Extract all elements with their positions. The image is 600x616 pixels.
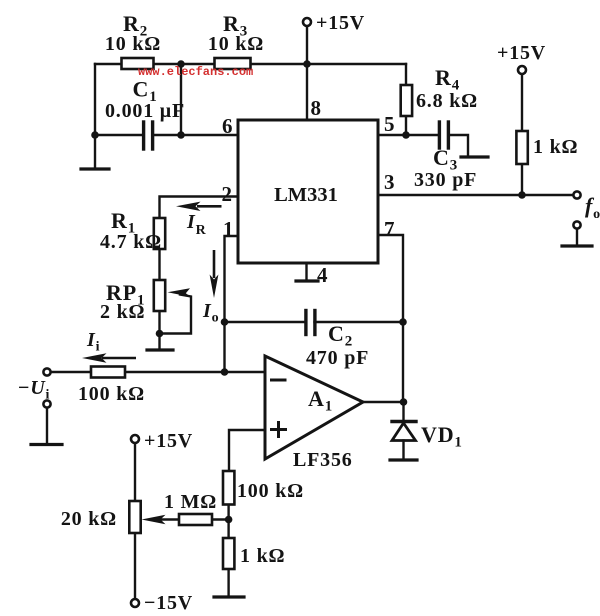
junction node pin8/+15V [303, 60, 311, 68]
diode VD1 triangle [392, 423, 416, 441]
svg-text:4.7 kΩ: 4.7 kΩ [100, 231, 162, 253]
terminal +15V top [303, 18, 311, 26]
resistor 1 kOhm right [516, 131, 527, 164]
resistor R3 [215, 58, 251, 69]
resistor R4 [401, 85, 412, 116]
svg-text:1 kΩ: 1 kΩ [240, 545, 285, 567]
wire R1 to RP1 [158, 249, 160, 280]
wire 1M left to pot arrow [156, 518, 179, 520]
wire top rail y=64 from left vertical to R4 corner [95, 63, 406, 65]
svg-text:−Ui: −Ui [18, 377, 50, 403]
svg-text:2 kΩ: 2 kΩ [100, 301, 145, 323]
wire op-amp plus input [229, 430, 265, 471]
svg-text:10 kΩ: 10 kΩ [208, 33, 264, 55]
svg-text:8: 8 [311, 96, 322, 120]
svg-text:100 kΩ: 100 kΩ [78, 383, 145, 405]
IC LM331 box [238, 120, 378, 263]
junction node pin3/1k [518, 191, 526, 199]
wire C2 row right segment [315, 321, 404, 323]
arrow Io [213, 250, 216, 278]
svg-text:0.001 μF: 0.001 μF [105, 100, 185, 122]
ground RP1 [147, 348, 173, 351]
ground fo [562, 244, 592, 247]
ground bottom divider [214, 595, 244, 598]
wire 100k-b to 1k-b [227, 505, 229, 539]
capacitor C3 plates [438, 122, 441, 148]
svg-text:+15V: +15V [497, 42, 546, 64]
resistor 1 kOhm divider [223, 538, 234, 569]
wire RP1 bottom to ground [158, 311, 160, 349]
svg-text:1: 1 [223, 217, 234, 241]
wire pin 7 down right side [378, 235, 403, 402]
junction node pin5/R4 [402, 131, 410, 139]
svg-text:+15V: +15V [316, 12, 365, 34]
terminal -Ui [43, 368, 50, 375]
resistor 100 kOhm divider [223, 471, 234, 505]
ground left (under C1 branch) [81, 167, 109, 170]
svg-text:100 kΩ: 100 kΩ [237, 480, 304, 502]
svg-text:2: 2 [222, 182, 233, 206]
arrow IR [197, 205, 222, 208]
ground input [31, 443, 62, 446]
ground VD1 [390, 458, 417, 461]
svg-text:1 MΩ: 1 MΩ [164, 491, 217, 513]
op-amp A1 triangle [265, 356, 363, 459]
wire junction R2/R3 down to C1 line [180, 64, 182, 135]
wire pin 4 stub [305, 263, 307, 280]
wire 1k-b to ground [227, 569, 229, 596]
wire RP1 wiper loop [160, 295, 192, 334]
potentiometer RP1 body [154, 280, 165, 311]
svg-text:6.8 kΩ: 6.8 kΩ [416, 90, 478, 112]
resistor 100 kOhm input [91, 367, 125, 378]
wire 1M to divider junction [212, 518, 229, 520]
wire pin 3 row to fo terminal [378, 194, 574, 196]
wire fo ground stub [576, 229, 578, 246]
svg-text:6: 6 [222, 114, 233, 138]
svg-text:3: 3 [384, 170, 395, 194]
svg-text:330 pF: 330 pF [414, 169, 477, 191]
arrow pot 20k wiper [142, 515, 166, 524]
wire C3 right to small ground [448, 135, 468, 156]
diode VD1 cathode bar [392, 420, 416, 423]
terminal fo ground [573, 221, 580, 228]
op-amp minus sign [272, 379, 286, 382]
terminal -15V [131, 599, 139, 607]
wire left vertical branch x=95 down to ground [94, 64, 96, 168]
arrow Ii [102, 357, 136, 360]
wire VD1 to ground [402, 441, 404, 460]
svg-text:1 kΩ: 1 kΩ [533, 136, 578, 158]
junction node C1 right [177, 131, 185, 139]
wire op-amp output [363, 401, 404, 403]
arrow RP1 wiper [168, 288, 191, 297]
junction node C1 left [91, 131, 99, 139]
wire R4 bottom to pin5 row [405, 115, 407, 136]
ground pin 4 [296, 279, 318, 282]
wire 1k bottom to pin3 row [521, 164, 523, 195]
svg-text:IR: IR [186, 211, 207, 238]
svg-text:VD1: VD1 [421, 422, 463, 451]
junction node R2/R3 [177, 60, 185, 68]
wire pin 2 row [160, 197, 239, 219]
op-amp plus sign [272, 428, 286, 431]
wire VD1 top [402, 402, 404, 421]
capacitor C1 plates [142, 122, 145, 149]
svg-text:10 kΩ: 10 kΩ [105, 33, 161, 55]
svg-text:Io: Io [202, 300, 219, 326]
svg-text:20 kΩ: 20 kΩ [61, 508, 117, 530]
junction node RP1 bottom [156, 330, 164, 338]
svg-text:C2: C2 [328, 321, 353, 350]
terminal +15V right [518, 66, 526, 74]
svg-text:fo: fo [585, 193, 600, 222]
resistor 1 MOhm [179, 514, 212, 525]
wire input lower terminal to ground [46, 408, 48, 444]
resistor R2 [122, 58, 154, 69]
junction node Io/C2 [221, 318, 229, 326]
terminal +15V bottom [131, 435, 139, 443]
svg-text:LF356: LF356 [293, 449, 353, 471]
terminal fo [573, 191, 580, 198]
junction node op-amp output [400, 398, 408, 406]
wire C1 row y=135 left segment [95, 134, 143, 136]
wire +15V top down to pin 8 [306, 26, 308, 120]
wire pin 1 down to input row [225, 236, 239, 372]
potentiometer 20 kOhm body [129, 501, 140, 533]
wire pot top from +15V [134, 443, 136, 501]
svg-text:Ii: Ii [86, 329, 100, 355]
wire C2 row left segment [225, 321, 306, 323]
svg-text:LM331: LM331 [274, 184, 338, 206]
svg-text:4: 4 [317, 263, 328, 287]
ground C3 [461, 155, 488, 158]
wire input row y=372 [51, 371, 266, 373]
wire R4 corner down [405, 64, 407, 86]
svg-text:7: 7 [384, 217, 395, 241]
capacitor C2 plates [304, 311, 307, 335]
svg-text:5: 5 [384, 112, 395, 136]
wire pot bottom to -15V [134, 533, 136, 599]
junction node input row [221, 368, 229, 376]
wire C1 row y=135 right segment to pin 6 [153, 134, 238, 136]
svg-text:www.elecfans.com: www.elecfans.com [138, 65, 253, 79]
svg-text:470 pF: 470 pF [306, 347, 369, 369]
svg-text:+15V: +15V [144, 430, 193, 452]
wire +15V right down to 1k [521, 74, 523, 131]
wire pin 5 row y=135 [378, 134, 439, 136]
terminal -Ui ground [43, 400, 50, 407]
resistor R1 [154, 218, 165, 249]
svg-text:−15V: −15V [144, 592, 193, 614]
junction node divider [225, 516, 233, 524]
junction node C2 right [399, 318, 407, 326]
